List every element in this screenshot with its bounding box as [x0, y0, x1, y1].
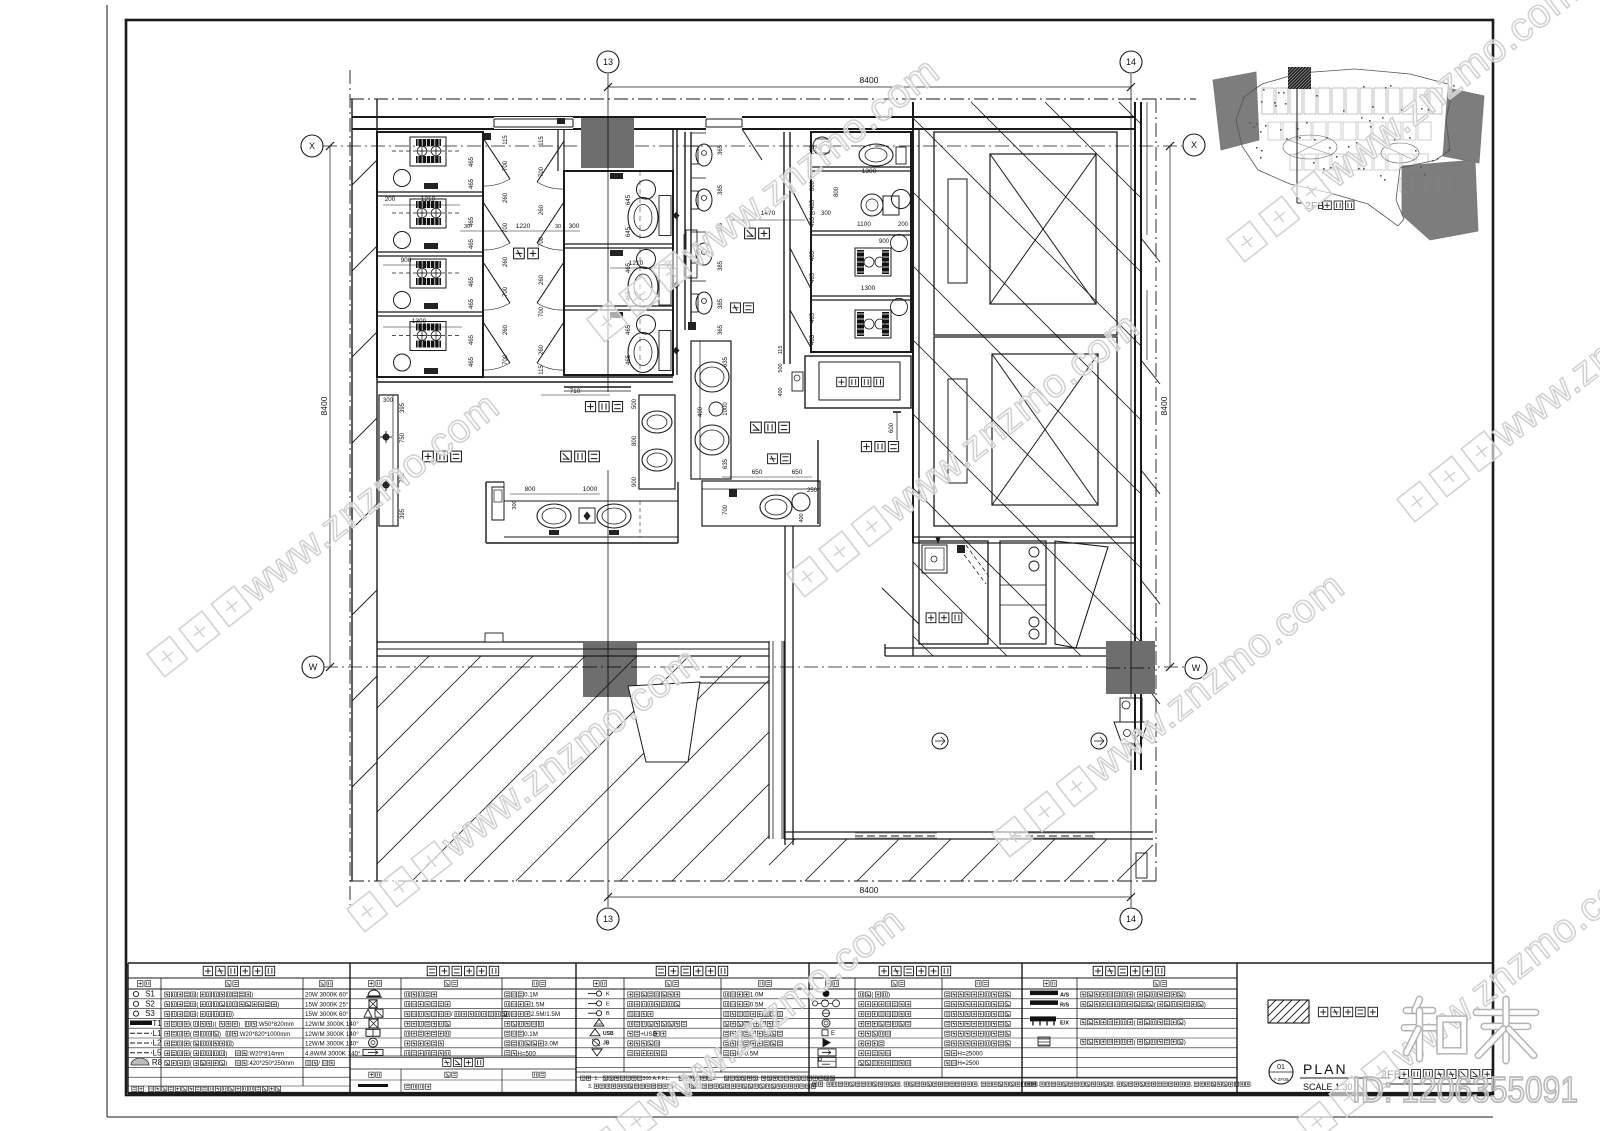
label washing center — [561, 451, 572, 462]
svg-text:15W 3000K 60°: 15W 3000K 60° — [305, 1011, 349, 1018]
legend row p2 — [369, 1038, 378, 1047]
key plan grey bottom — [1402, 160, 1478, 240]
svg-text:200: 200 — [898, 222, 909, 228]
svg-text:8400: 8400 — [1159, 396, 1169, 415]
svg-text:K: K — [606, 992, 610, 998]
svg-text:465: 465 — [810, 334, 816, 345]
title block area — [1237, 962, 1493, 964]
legend row p4 — [823, 991, 829, 997]
squat toilet 1 — [410, 137, 446, 166]
svg-text:3.: 3. — [588, 1084, 592, 1090]
corridor left wall — [768, 641, 770, 839]
panel3 note — [576, 1071, 809, 1073]
non-design swatch — [1268, 1000, 1309, 1023]
svg-text:700: 700 — [503, 160, 509, 171]
stall door 3 — [483, 262, 510, 303]
toilet 3 — [610, 312, 623, 318]
svg-text:(: ( — [190, 1022, 192, 1028]
legend row p2 — [369, 1000, 377, 1008]
dimension 8400 bottom — [608, 896, 1131, 898]
squat toilet 4 — [410, 322, 446, 351]
svg-text:260: 260 — [503, 256, 509, 267]
svg-text:1300: 1300 — [412, 318, 427, 325]
panel4 note — [809, 1077, 1022, 1079]
legend row L5 — [130, 1052, 152, 1054]
svg-text:260: 260 — [503, 192, 509, 203]
svg-text:15W 3000K 25°: 15W 3000K 25° — [305, 1001, 349, 1008]
void trapezoid — [628, 682, 700, 762]
svg-text:8400: 8400 — [860, 885, 879, 895]
svg-text:465: 465 — [810, 250, 816, 261]
svg-text:900: 900 — [632, 476, 638, 487]
toilet 2 — [610, 250, 623, 256]
label washing right — [751, 422, 762, 433]
svg-text:(: ( — [196, 1002, 198, 1008]
svg-text:0.1M: 0.1M — [524, 992, 538, 999]
svg-text:400: 400 — [698, 406, 704, 417]
female corridor doors — [537, 141, 564, 182]
svg-text:(: ( — [190, 1051, 192, 1057]
svg-text:S2: S2 — [145, 999, 155, 1008]
dimension 8400 top — [608, 86, 1131, 88]
svg-text:.: . — [1038, 1082, 1039, 1088]
svg-text:H=2500: H=2500 — [957, 1060, 979, 1067]
svg-text:1210: 1210 — [629, 260, 644, 267]
ceiling symbols — [932, 733, 948, 749]
kids sink counter — [691, 341, 731, 479]
svg-text:900: 900 — [879, 239, 890, 245]
svg-text:): ) — [251, 993, 253, 999]
plan title circle — [1269, 1060, 1293, 1084]
svg-text:B: B — [606, 1011, 610, 1017]
legend header — [203, 966, 212, 975]
svg-text:365: 365 — [718, 324, 724, 335]
svg-text:0.1M: 0.1M — [524, 1031, 538, 1038]
panel1 columns — [160, 978, 162, 1086]
svg-text:465: 465 — [469, 356, 475, 367]
floor drain 3 — [394, 292, 411, 309]
kids sink 1 — [695, 362, 729, 392]
svg-text::: : — [144, 1086, 146, 1093]
grid bubble 13 — [597, 51, 619, 73]
panel1 note — [128, 1085, 350, 1087]
male area left wall — [783, 132, 785, 364]
legend row p3 — [594, 1019, 604, 1026]
svg-text:12W/M 3000K 140°: 12W/M 3000K 140° — [305, 1031, 359, 1038]
svg-text:900: 900 — [401, 257, 412, 264]
bottom right small column — [1136, 853, 1147, 878]
svg-text:465: 465 — [469, 298, 475, 309]
svg-text:JB: JB — [603, 1041, 610, 1047]
svg-text:700: 700 — [503, 354, 509, 365]
art light 2 — [383, 482, 389, 488]
key plan grey left — [1213, 72, 1259, 150]
urinal 1 — [691, 146, 698, 164]
svg-text:30: 30 — [464, 224, 470, 230]
svg-text:500: 500 — [632, 398, 638, 409]
slanted wall piece — [1055, 541, 1108, 648]
non-design hatch region — [376, 655, 378, 657]
legend row p3 — [592, 1049, 602, 1056]
makeup counter — [379, 395, 398, 526]
key plan grey right — [1443, 88, 1484, 163]
label er tong 1 — [731, 303, 741, 313]
toilet 1 — [610, 173, 623, 179]
grid bubble X/W — [1183, 134, 1205, 156]
svg-text:465: 465 — [626, 324, 632, 335]
svg-text:H=25000: H=25000 — [957, 1050, 983, 1057]
svg-text:1000: 1000 — [723, 402, 729, 416]
panel2 columns — [400, 978, 402, 1056]
legend row p4 — [823, 1010, 830, 1017]
svg-text:W: W — [309, 662, 318, 672]
urinal wall — [684, 132, 686, 330]
counter top line — [504, 500, 678, 502]
legend row p4 — [823, 1039, 830, 1047]
svg-text:465: 465 — [469, 334, 475, 345]
svg-text:8400: 8400 — [319, 396, 329, 415]
grid line 14 vertical — [1130, 74, 1132, 697]
svg-text:14: 14 — [1126, 914, 1136, 924]
legend row R8 — [131, 1058, 149, 1065]
grid bubble X/W — [301, 135, 323, 157]
svg-text:7-2F08: 7-2F08 — [1273, 1077, 1289, 1083]
column grey bottom-right — [1106, 641, 1155, 694]
legend row p3 — [590, 1029, 600, 1036]
svg-text:): ) — [225, 1061, 227, 1067]
legend row p4 — [822, 1030, 828, 1036]
svg-text:465: 465 — [810, 272, 816, 283]
svg-text:(: ( — [196, 1012, 198, 1018]
svg-text:: 1.: : 1. — [591, 1076, 598, 1082]
label er tong 2 — [768, 454, 778, 464]
svg-text:13: 13 — [603, 57, 613, 67]
svg-text:465: 465 — [469, 238, 475, 249]
svg-text:01: 01 — [1277, 1064, 1285, 1071]
key plan ovals — [1283, 135, 1337, 159]
squat toilet 3 — [410, 259, 446, 288]
legend table frame — [128, 962, 1237, 964]
svg-text:,: , — [758, 1076, 759, 1082]
svg-text:465: 465 — [810, 199, 816, 210]
svg-text:260: 260 — [503, 324, 509, 335]
svg-text:X: X — [309, 141, 315, 151]
urinal 4 — [691, 294, 698, 312]
svg-text:385: 385 — [718, 184, 724, 195]
svg-text:465: 465 — [469, 276, 475, 287]
svg-text:1300: 1300 — [861, 285, 876, 292]
svg-text:): ) — [219, 1032, 221, 1038]
art light 1 — [383, 434, 389, 440]
svg-text::: : — [1036, 1082, 1037, 1088]
svg-text:/: / — [318, 1060, 320, 1067]
right wall door swings — [1141, 238, 1160, 262]
squat toilet 2 — [410, 199, 446, 228]
svg-text:14: 14 — [1126, 57, 1136, 67]
svg-text:1000: 1000 — [583, 486, 598, 493]
svg-text:1210: 1210 — [421, 196, 436, 203]
floor drain 2 — [394, 232, 411, 249]
sink 2 — [597, 504, 631, 528]
female toilet stall block — [564, 171, 673, 375]
label nv wei — [514, 248, 525, 259]
grid bubble 14 — [1120, 51, 1142, 73]
kids drain — [709, 402, 723, 416]
svg-text::: : — [823, 1082, 824, 1088]
plan boundary dash-dot right — [1155, 99, 1157, 881]
svg-text:.: . — [1251, 1082, 1252, 1088]
svg-text:): ) — [225, 1051, 227, 1057]
fan symbol — [792, 372, 803, 391]
grid line W horizontal — [324, 666, 1184, 668]
bottom wall right zone — [885, 647, 1108, 649]
svg-text:800: 800 — [632, 435, 638, 446]
floor drain 1 — [394, 170, 411, 187]
shaft bottom wall — [913, 536, 1135, 538]
svg-text:300: 300 — [383, 398, 394, 404]
svg-text:400: 400 — [799, 513, 805, 522]
svg-text:): ) — [1184, 992, 1186, 999]
svg-text:1100: 1100 — [857, 221, 871, 228]
grid bubble X/W — [302, 656, 324, 678]
key plan dots — [1316, 95, 1318, 97]
column grey bottom-left — [583, 643, 637, 697]
legend row p2 — [368, 990, 380, 996]
legend row p4 — [818, 1049, 836, 1056]
column grey top-left — [581, 118, 634, 168]
svg-text:635: 635 — [723, 356, 729, 367]
svg-text:200: 200 — [385, 196, 396, 203]
legend row p2 — [366, 1029, 380, 1036]
label cleaning room — [926, 613, 936, 623]
other legend header — [350, 1055, 576, 1057]
znzmo logo outline — [1406, 1007, 1432, 1015]
svg-text:T1: T1 — [152, 1019, 162, 1028]
grid line 13 vertical — [607, 74, 609, 392]
panel5 note — [1022, 1077, 1237, 1079]
legend row T1 — [130, 1021, 152, 1026]
svg-text:): ) — [232, 1042, 234, 1048]
legend row A/S — [1030, 991, 1058, 996]
legend header — [427, 966, 436, 975]
svg-text:115: 115 — [778, 346, 784, 355]
legend row S3 — [133, 1011, 138, 1016]
svg-text:395: 395 — [400, 508, 406, 519]
svg-text:1220: 1220 — [516, 223, 531, 230]
legend row p4 — [813, 1001, 818, 1006]
svg-text:E: E — [831, 1031, 835, 1037]
watermark layer — [142, 384, 508, 683]
corridor bottom wall — [784, 831, 1153, 833]
kids sink 2 — [695, 425, 729, 455]
male stall B toilet — [861, 194, 883, 216]
svg-text:,: , — [978, 1082, 979, 1088]
svg-text:S3: S3 — [145, 1009, 155, 1018]
svg-text:3.0M: 3.0M — [544, 1041, 558, 1048]
legend header — [656, 966, 665, 975]
legend row p3 — [588, 1002, 596, 1004]
legend row R/S — [1030, 1000, 1058, 1005]
soap box — [579, 508, 595, 523]
key plan cells — [1262, 88, 1274, 114]
legend row E/X — [1030, 1016, 1056, 1021]
svg-text:(: ( — [190, 1032, 192, 1038]
legend row S1 — [133, 991, 138, 996]
key plan leader line — [1296, 89, 1298, 203]
svg-text:12W/M 3000K 140°: 12W/M 3000K 140° — [305, 1021, 359, 1028]
svg-text:): ) — [238, 1022, 240, 1028]
mirror 710 — [564, 386, 631, 388]
cleaning room walls — [919, 541, 988, 644]
svg-text:600: 600 — [889, 422, 895, 433]
cleaning room door — [882, 588, 919, 624]
key plan outline — [1236, 69, 1452, 226]
sliding door dashes — [855, 833, 937, 838]
svg-text:): ) — [277, 1002, 279, 1008]
svg-text:R/S: R/S — [1060, 1002, 1070, 1008]
svg-text:(: ( — [190, 1042, 192, 1048]
shaft 2 — [934, 337, 1117, 526]
label makeup — [423, 451, 434, 462]
legend row p4 — [822, 1019, 830, 1027]
svg-text:115: 115 — [503, 135, 509, 145]
svg-text:X: X — [1191, 140, 1197, 150]
sink 1 — [537, 504, 571, 528]
svg-text:ID: 1206355091: ID: 1206355091 — [1352, 1069, 1578, 1110]
label nan wei — [745, 228, 756, 239]
svg-text:260: 260 — [539, 344, 545, 355]
legend row p3 — [588, 1012, 596, 1014]
legend row p2 — [363, 1049, 383, 1055]
svg-text:500: 500 — [778, 363, 784, 372]
svg-text:645: 645 — [626, 194, 632, 205]
dimension 8400 left — [329, 146, 331, 667]
svg-text:13: 13 — [603, 914, 613, 924]
male stall block walls — [811, 132, 911, 352]
door frame mark — [484, 133, 491, 140]
svg-text:): ) — [888, 992, 890, 999]
svg-text:PLAN: PLAN — [1303, 1061, 1348, 1077]
legend row L2 — [130, 1042, 152, 1044]
key plan highlight square — [1288, 67, 1311, 89]
stall door 2 — [483, 202, 510, 243]
legend row p2 — [364, 1009, 372, 1017]
svg-text:1.5M: 1.5M — [531, 1001, 545, 1008]
legend row p3 — [588, 993, 596, 995]
svg-text:(: ( — [190, 1061, 192, 1067]
svg-text:700: 700 — [539, 236, 545, 247]
shaft zone outer walls — [912, 102, 914, 543]
svg-text::420*250*250mm: :420*250*250mm — [248, 1061, 294, 1067]
shaft zone hatch — [913, 636, 933, 656]
svg-text:650: 650 — [792, 469, 803, 476]
svg-text:700: 700 — [503, 286, 509, 297]
stall door 4 — [483, 322, 510, 363]
svg-text:E: E — [606, 1001, 610, 1007]
urinal screens — [686, 230, 697, 278]
left wall strip — [351, 99, 353, 881]
svg-text:20W 3000K 60°: 20W 3000K 60° — [305, 992, 349, 999]
svg-text:,: , — [1191, 1082, 1192, 1088]
outer thin frame — [106, 5, 108, 1117]
svg-text:700: 700 — [539, 166, 545, 177]
svg-text:645: 645 — [626, 226, 632, 237]
svg-text:L5: L5 — [153, 1048, 162, 1057]
label full mirror right — [861, 442, 871, 452]
legend header — [1093, 966, 1102, 975]
label full mirror left — [585, 402, 595, 412]
mop sink — [922, 545, 947, 573]
svg-text:465: 465 — [810, 216, 816, 227]
svg-text:710: 710 — [570, 388, 581, 395]
svg-text:465: 465 — [469, 178, 475, 189]
legend row L1 — [130, 1032, 152, 1034]
stall door 1 — [483, 138, 510, 179]
entrance mirror strip — [494, 117, 573, 129]
grid bubble X/W — [1185, 657, 1207, 679]
svg-text:): ) — [1184, 1019, 1186, 1026]
svg-text:USB: USB — [603, 1031, 614, 1037]
svg-text:R8: R8 — [152, 1058, 163, 1067]
svg-text:700: 700 — [723, 504, 729, 515]
male squat 1 — [855, 248, 891, 276]
bottom wall of stall blocks — [377, 376, 673, 378]
svg-text:365: 365 — [718, 144, 724, 155]
svg-text:,: , — [1114, 1082, 1115, 1088]
svg-text:2.5M/1.5M: 2.5M/1.5M — [531, 1011, 560, 1018]
svg-text:(: ( — [196, 993, 198, 999]
svg-text:115: 115 — [539, 136, 545, 146]
svg-text:)(: )( — [213, 1022, 217, 1028]
svg-text:385: 385 — [718, 298, 724, 309]
male stall A toilet — [859, 144, 893, 166]
legend row grid vent — [1038, 1037, 1050, 1046]
grid line X horizontal — [323, 145, 1182, 147]
svg-text:1300: 1300 — [862, 168, 877, 175]
svg-text:300: 300 — [569, 223, 580, 230]
dimension ticks — [604, 83, 612, 91]
panel3 columns — [623, 978, 625, 1072]
kids counter bottom — [702, 481, 820, 526]
lobby wall — [557, 129, 559, 171]
svg-text:300: 300 — [512, 500, 518, 509]
restroom bottom wall left — [377, 641, 769, 643]
mid wash counter — [639, 395, 675, 489]
cabinet column — [1000, 541, 1046, 644]
svg-text:E/X: E/X — [1060, 1020, 1069, 1026]
svg-text::W20*814mm: :W20*814mm — [248, 1051, 284, 1057]
male entrance opening — [706, 116, 742, 130]
svg-text:700: 700 — [503, 222, 509, 233]
svg-text:395: 395 — [400, 402, 406, 413]
shaft 1 — [934, 132, 1117, 335]
legend header — [879, 966, 888, 975]
svg-text:L2: L2 — [153, 1039, 162, 1048]
urinal 3 — [691, 245, 698, 263]
legend row S2 — [133, 1001, 138, 1006]
grid overlays on columns — [607, 118, 609, 168]
exhaust symbol — [1120, 698, 1142, 722]
svg-text:S1: S1 — [145, 990, 155, 999]
svg-text:115: 115 — [539, 365, 545, 375]
svg-text:A/S: A/S — [1060, 993, 1070, 999]
urinal 2 — [691, 191, 698, 209]
svg-text:465: 465 — [810, 312, 816, 323]
svg-text:260: 260 — [539, 274, 545, 285]
svg-text:L1: L1 — [153, 1029, 162, 1038]
vent room box — [805, 356, 911, 408]
panel4 columns — [854, 978, 856, 1078]
